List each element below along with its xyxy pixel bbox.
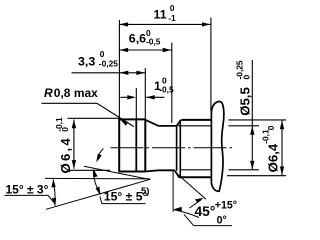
rotated text dia 6,4 right [260, 125, 280, 172]
centerline [111, 147, 235, 149]
text 11 with tolerance [154, 3, 176, 23]
svg-text:6,6: 6,6 [129, 32, 146, 46]
dia 5.5: extension top [178, 125, 259, 127]
dia 5.5: dimension line [251, 60, 253, 169]
dimension 6.6 arrows [120, 48, 172, 52]
left dia 6.4: extension bottom [68, 169, 111, 171]
extension line for 1 dim left [135, 88, 137, 119]
right dia 6.4: arrows [280, 121, 284, 175]
dimension 6.6 line [119, 49, 171, 51]
svg-text:+15°: +15° [215, 199, 237, 211]
text R0,8 max [44, 86, 98, 100]
svg-text:5): 5) [141, 186, 149, 197]
part: left face [118, 119, 120, 171]
svg-text:-0,5: -0,5 [159, 85, 174, 95]
svg-text:Ø6,4: Ø6,4 [58, 136, 73, 173]
text 1 with tolerance [154, 76, 174, 95]
rotated text dia 5,5 [235, 60, 253, 116]
svg-text:R: R [44, 86, 53, 100]
angle construction: 15deg diagonal D1 [46, 179, 151, 209]
15+-5 label leader [100, 197, 102, 204]
angle construction: diagonal D2 through part corner [84, 166, 150, 179]
dimension 3.3 arrows [120, 71, 145, 75]
45deg dim: arc [174, 210, 199, 218]
left dia 6.4: arrows [72, 120, 76, 169]
part: right cylinder top edge [181, 119, 210, 121]
angle construction: horizontal reference line [45, 177, 150, 180]
part: left cylinder bottom edge [118, 171, 145, 173]
text 3,3 with tolerance [78, 49, 118, 69]
svg-text:-0,1: -0,1 [54, 117, 64, 132]
part: chamfer top [177, 120, 181, 126]
R0.8 leader line [97, 103, 134, 126]
svg-text:0,8 max: 0,8 max [54, 86, 98, 100]
left dia 6.4: extension top [68, 117, 120, 119]
15+-3 arc [53, 180, 55, 206]
part: chamfer edge vertical 2 [179, 120, 181, 177]
svg-text:-0,25: -0,25 [99, 58, 118, 68]
part: chamfer bottom [175, 171, 179, 178]
svg-text:11: 11 [154, 7, 167, 21]
left dia 6.4: dimension line [73, 120, 75, 169]
svg-text:15° ± 3°: 15° ± 3° [6, 183, 49, 197]
45deg label underline and left diagonal [184, 214, 232, 225]
svg-text:Ø5,5: Ø5,5 [238, 87, 253, 116]
part: neck top edge [159, 125, 178, 127]
15+-5 label underline [102, 203, 146, 205]
15+-5 arc lower segment [93, 170, 100, 194]
15+-5 arc top arrow [93, 169, 97, 178]
extension line for 1 dim right (shared with 3.3) [144, 68, 146, 119]
45deg dim: arc arrow [173, 207, 182, 211]
15+-5 arc lower arrow [96, 187, 101, 196]
dimension 1 arrow right (pointing left) [146, 95, 155, 99]
extension line for 6.6 dim [171, 43, 173, 124]
text 15 +-5 with note 5) [104, 186, 150, 204]
extension line left (for 11/6.6/3.3 dims) [118, 20, 120, 119]
right dia 6.4: extension bottom [227, 175, 286, 177]
dimension 11 arrows [120, 22, 211, 26]
dimension 1 arrow left (pointing right) [127, 95, 136, 99]
svg-text:-1: -1 [168, 13, 176, 23]
part: groove edge line 1 [135, 119, 137, 171]
extension line right (for 11 dim) [210, 18, 212, 112]
part: cone bottom [145, 170, 158, 171]
svg-text:45°: 45° [195, 204, 216, 219]
45deg dim: vertical extension [172, 171, 174, 212]
R0.8 label underline [42, 102, 98, 104]
45deg dim: leader from text with arrow [190, 200, 202, 208]
part: right cylinder bottom edge [179, 176, 211, 178]
right dia 6.4: dimension line [281, 120, 283, 175]
right dia 6.4: extension top [229, 119, 287, 121]
flange bell outline with break edge [211, 101, 224, 191]
svg-text:Ø6,4: Ø6,4 [266, 143, 281, 172]
15+-5 arc upper arrow [96, 154, 102, 163]
45deg dim: chamfer extension line [175, 172, 206, 199]
svg-text:0°: 0° [217, 214, 227, 226]
part: groove edge line 2 [144, 119, 146, 171]
svg-text:0: 0 [170, 3, 175, 13]
svg-text:-0,25: -0,25 [235, 60, 245, 79]
part: cone top (6.4 to 5.5) [145, 120, 158, 126]
dimension 3.3 line [72, 72, 146, 74]
text 45 degrees with tolerances [195, 199, 238, 226]
15+-3 arc arrows [51, 179, 56, 206]
part: left cylinder top edge [118, 118, 145, 120]
dia 5.5: extension bottom [180, 169, 259, 171]
dia 5.5: arrows [250, 126, 254, 169]
R0.8 leader arrowhead [120, 120, 128, 126]
dimension 11 line [119, 23, 210, 25]
15+-5 arc upper segment [97, 149, 103, 160]
part: neck bottom edge [159, 169, 176, 171]
part: chamfer edge vertical 1 [176, 126, 178, 171]
15+-3 label underline and leader [5, 195, 55, 202]
svg-text:-0,5: -0,5 [146, 36, 161, 46]
text 6,6 with tolerance [129, 28, 161, 46]
rotated text dia 6,4 left [54, 117, 73, 173]
dimension 1 line left part [120, 96, 133, 98]
svg-text:3,3: 3,3 [78, 55, 95, 69]
svg-text:-0,1: -0,1 [260, 129, 270, 144]
dimension 1 line right part [146, 96, 164, 98]
